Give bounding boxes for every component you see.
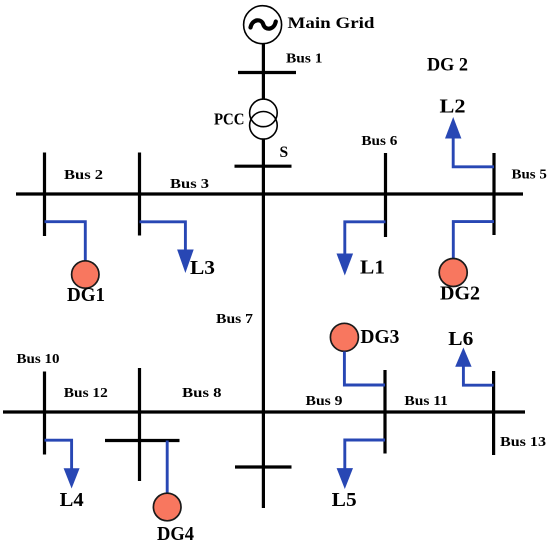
utility source G1 (Main Grid) [244,6,282,44]
svg-text:DG2: DG2 [440,283,480,305]
svg-text:Bus 8: Bus 8 [182,386,222,401]
svg-text:Bus 1: Bus 1 [286,52,323,67]
svg-text:L6: L6 [448,328,473,350]
svg-text:L4: L4 [60,489,84,511]
bus bar DG4 tap [105,439,180,442]
bus bar Bus 9 / Bus 11 [383,370,386,454]
svg-text:Bus 9: Bus 9 [306,394,343,409]
svg-text:Bus 3: Bus 3 [170,177,209,192]
svg-text:L5: L5 [332,489,357,511]
bus bar Bus 13 [492,371,495,455]
wire DG4 connector [166,441,169,494]
svg-text:L2: L2 [440,96,466,118]
generator DG4 [153,493,181,521]
svg-text:L1: L1 [360,257,385,279]
svg-text:L3: L3 [190,257,215,279]
wire DG1 connector [45,222,86,262]
generator DG3 [330,323,358,351]
wire bottom feeder [3,410,525,413]
svg-text:Bus 13: Bus 13 [500,435,546,450]
bus bar Bus 2 [43,153,46,237]
bus bar Bus 12 / Bus 8 [138,368,141,481]
load L4 arrow [45,440,80,488]
wire DG2 connector [453,222,494,259]
svg-text:Bus 7: Bus 7 [216,312,253,327]
svg-text:PCC: PCC [214,109,245,128]
load L2 arrow (upward) [445,117,494,167]
wire transformer to S bar [262,139,265,166]
svg-text:DG4: DG4 [157,523,194,545]
svg-text:Main Grid: Main Grid [288,15,375,32]
bus bar Bus 5 [492,153,495,235]
svg-text:DG3: DG3 [360,326,399,348]
load L5 arrow [337,440,385,489]
bus bar Bus 1 [238,71,296,74]
svg-text:DG 2: DG 2 [427,55,468,76]
load L1 arrow [337,222,386,276]
load L3 arrow [140,222,194,273]
svg-text:Bus 10: Bus 10 [17,352,60,367]
switch bar S [235,165,292,168]
svg-text:DG1: DG1 [67,284,105,306]
bus bar Bus 10 [43,372,46,455]
bus bar bottom center [235,465,292,468]
svg-text:Bus 6: Bus 6 [361,134,397,149]
svg-text:Bus 12: Bus 12 [64,386,108,401]
svg-text:Bus 5: Bus 5 [512,167,547,182]
wire Bus 7 (central vertical) [262,166,265,508]
bus bar Bus 3 [138,153,141,236]
transformer T1 (PCC) [250,99,278,139]
svg-text:S: S [280,144,289,161]
wire top feeder [16,192,523,195]
generator DG2 [439,259,467,287]
generator DG1 [72,261,99,288]
bus bar Bus 6 [384,153,387,237]
svg-text:Bus 2: Bus 2 [64,168,103,183]
load L6 arrow (upward) [455,348,493,386]
wire DG3 connector [344,352,385,386]
wire source to Bus 1 [262,43,265,100]
svg-text:Bus 11: Bus 11 [404,394,448,409]
